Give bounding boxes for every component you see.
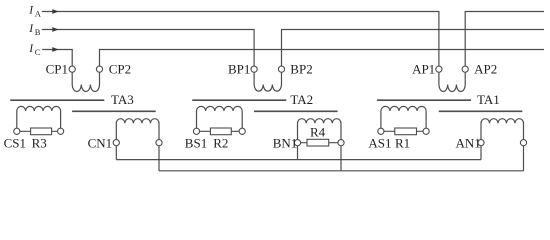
wire phase B line left segment (42, 30, 254, 67)
svg-text:I: I (28, 5, 34, 17)
wire phase A line right segment (465, 12, 544, 67)
winding AS1 secondary coil (381, 106, 426, 128)
svg-text:TA2: TA2 (290, 92, 313, 107)
wire AN1 right lead to bottom bus (523, 146, 525, 171)
terminal BN1 left (294, 140, 300, 146)
svg-text:R2: R2 (213, 136, 228, 151)
terminal BS1 left (193, 128, 199, 134)
svg-text:B: B (35, 27, 41, 37)
svg-text:CP1: CP1 (46, 62, 68, 77)
svg-text:TA3: TA3 (111, 92, 134, 107)
winding CN1 secondary coil (116, 119, 159, 140)
terminal CS1 right (58, 128, 64, 134)
wire phase A line left segment (42, 12, 439, 67)
wire AN1 left lead to top bus (480, 146, 482, 160)
transformer TA3 core bar lower (72, 110, 156, 112)
transformer TA2 primary winding (254, 72, 281, 91)
wire CN1 left lead to top bus (115, 146, 117, 160)
wire top bus (116, 159, 481, 161)
wire BN1 right lead to bottom bus (340, 146, 342, 171)
wire phase C line left segment (42, 50, 72, 67)
terminal CN1 left (113, 140, 119, 146)
transformer TA2 core bar upper (192, 99, 286, 101)
terminal AS1 left (378, 128, 384, 134)
svg-text:AP2: AP2 (474, 62, 497, 77)
terminal CP2 (96, 66, 102, 72)
terminal CN1 right (156, 140, 162, 146)
wire phase C line right segment (100, 50, 545, 67)
winding BS1 secondary coil (197, 106, 243, 128)
arrow current IA (52, 9, 59, 14)
transformer TA1 core bar upper (377, 99, 471, 101)
terminal BP2 (278, 66, 284, 72)
terminal CS1 left (14, 128, 20, 134)
resistor R4 (307, 139, 329, 146)
svg-text:CP2: CP2 (109, 62, 131, 77)
svg-text:AP1: AP1 (412, 62, 435, 77)
svg-text:I: I (28, 43, 34, 55)
svg-text:A: A (35, 8, 42, 18)
svg-text:I: I (28, 23, 34, 35)
winding AN1 secondary coil (481, 119, 524, 140)
terminal AN1 left (478, 140, 484, 146)
arrow current IB (52, 27, 59, 32)
svg-text:BP1: BP1 (228, 62, 250, 77)
terminal AS1 right (423, 128, 429, 134)
svg-text:CS1: CS1 (4, 136, 26, 151)
svg-text:R3: R3 (32, 136, 47, 151)
svg-text:AN1: AN1 (456, 135, 481, 150)
arrow current IC (52, 47, 59, 52)
transformer TA3 primary winding (72, 72, 99, 91)
transformer TA1 core bar lower (439, 110, 523, 112)
terminal AP2 (462, 66, 468, 72)
transformer TA1 primary winding (439, 72, 465, 91)
transformer TA2 core bar lower (254, 110, 338, 112)
wire phase B line right segment (282, 30, 545, 67)
winding BN1 secondary coil (298, 119, 342, 140)
terminal BN1 right (338, 140, 344, 146)
wire AS1 resistor loop (381, 130, 426, 132)
resistor R3 (31, 128, 52, 135)
svg-text:BN1: BN1 (273, 135, 298, 150)
resistor R1 (395, 128, 417, 135)
terminal BP1 (251, 66, 257, 72)
svg-text:BP2: BP2 (290, 62, 312, 77)
transformer TA3 core bar upper (10, 99, 104, 101)
svg-text:C: C (35, 47, 41, 57)
svg-text:CN1: CN1 (88, 135, 113, 150)
svg-text:AS1: AS1 (368, 136, 391, 151)
svg-text:BS1: BS1 (185, 136, 207, 151)
winding CS1 secondary coil (17, 106, 61, 128)
terminal AN1 right (520, 140, 526, 146)
wire BN1 left lead to top bus (297, 146, 299, 160)
terminal CP1 (69, 66, 75, 72)
wire BS1 resistor loop (197, 130, 243, 132)
wire CN1 right lead to bottom bus (158, 146, 160, 171)
resistor R2 (210, 128, 231, 135)
terminal AP1 (436, 66, 442, 72)
wire BN1 resistor loop (298, 142, 342, 144)
svg-text:R1: R1 (395, 136, 410, 151)
svg-text:TA1: TA1 (477, 92, 500, 107)
svg-text:R4: R4 (310, 124, 326, 139)
terminal BS1 right (239, 128, 245, 134)
wire CS1 resistor loop (17, 130, 61, 132)
wire bottom bus (159, 170, 524, 172)
